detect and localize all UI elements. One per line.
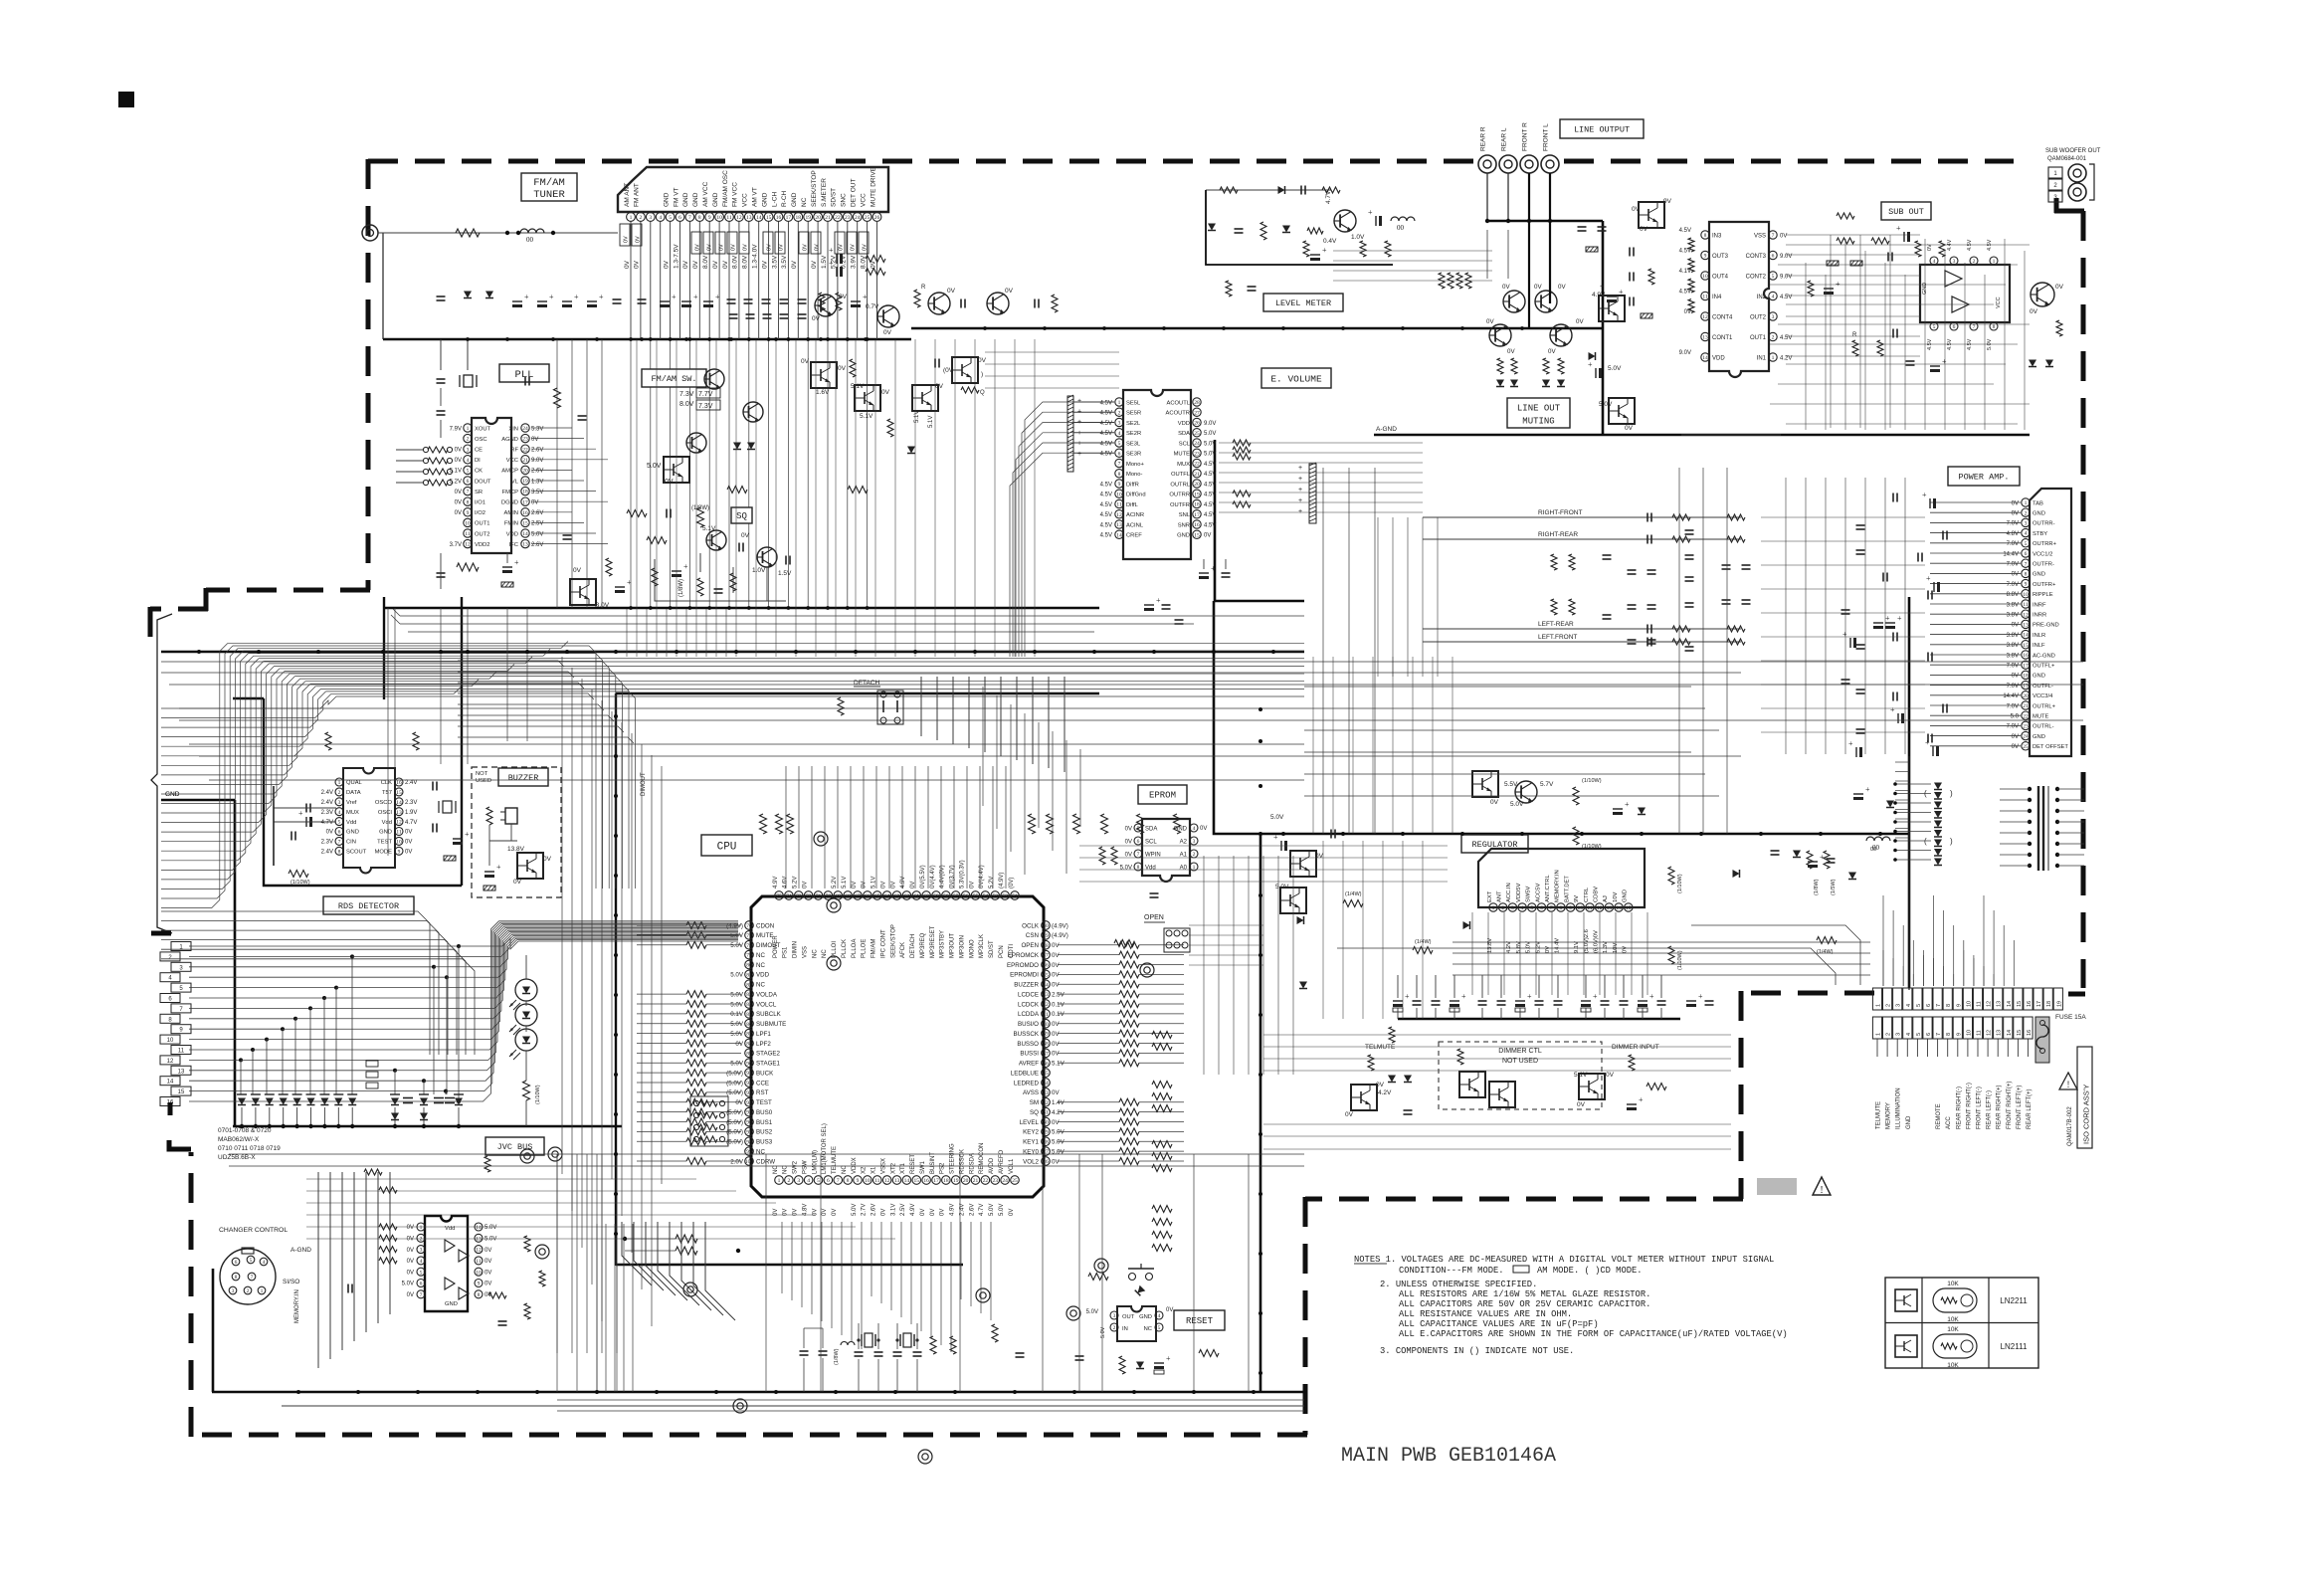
- svg-text:7.0V: 7.0V: [2007, 521, 2019, 527]
- resistor sq r3: [730, 573, 736, 591]
- wire bottom verticals: [557, 1154, 1249, 1392]
- svg-text:CONT2: CONT2: [1746, 274, 1767, 280]
- svg-text:BUZZER: BUZZER: [508, 773, 539, 783]
- svg-text:16: 16: [923, 1178, 929, 1184]
- ecap muting: [1588, 360, 1622, 378]
- svg-text:ACINL: ACINL: [1126, 522, 1144, 528]
- svg-text:!: !: [2067, 1080, 2070, 1089]
- wire left bus fan: [161, 642, 1304, 908]
- svg-text:CDRW: CDRW: [756, 1158, 775, 1165]
- svg-text:7: 7: [1137, 852, 1140, 858]
- svg-text:+: +: [1890, 705, 1895, 714]
- svg-text:CPU: CPU: [717, 841, 737, 853]
- svg-text:13: 13: [1702, 335, 1708, 341]
- svg-text:0V: 0V: [851, 244, 857, 251]
- wire bold sub gnd: [1214, 601, 1260, 834]
- svg-text:5.0V: 5.0V: [1608, 365, 1622, 372]
- svg-text:AM VT: AM VT: [752, 187, 759, 207]
- svg-text:11: 11: [874, 1178, 880, 1184]
- svg-text:ILLUMINATION: ILLUMINATION: [1896, 1087, 1902, 1129]
- wire bold jack top bus: [1487, 220, 1603, 223]
- svg-text:PS1: PS1: [783, 946, 789, 958]
- svg-text:GND: GND: [692, 192, 699, 207]
- transistor Q t3: [928, 288, 956, 314]
- svg-text:24: 24: [522, 426, 528, 432]
- svg-text:GND: GND: [1623, 889, 1629, 902]
- svg-text:4.5V: 4.5V: [1780, 335, 1792, 341]
- fuse 15A: [2035, 1014, 2086, 1063]
- resistor reset r3: [1199, 1350, 1219, 1357]
- svg-text:OUTFR-: OUTFR-: [2033, 562, 2054, 568]
- ecap sq: [672, 562, 688, 577]
- svg-text:I/O2: I/O2: [475, 510, 485, 516]
- svg-text:1.0V: 1.0V: [752, 567, 766, 574]
- svg-text:REAR RIGHT(+): REAR RIGHT(+): [1997, 1085, 2003, 1129]
- svg-text:2: 2: [420, 1236, 423, 1242]
- svg-text:REMOTE: REMOTE: [1936, 1103, 1942, 1129]
- svg-text:0V: 0V: [1490, 799, 1499, 806]
- svg-text:25: 25: [2023, 744, 2029, 750]
- svg-text:0V: 0V: [692, 260, 699, 269]
- svg-text:5.0V: 5.0V: [1275, 884, 1289, 890]
- resistor cpu left pair: [623, 1235, 740, 1255]
- svg-text:CDON: CDON: [756, 922, 774, 929]
- svg-text:19: 19: [953, 1178, 959, 1184]
- svg-text:0V: 0V: [890, 882, 896, 889]
- svg-text:7: 7: [1973, 324, 1976, 330]
- connector e.volume input bar: [1067, 395, 1081, 472]
- svg-text:LEVEL METER: LEVEL METER: [1275, 298, 1331, 308]
- wire cpu top bundle: [786, 766, 1006, 889]
- svg-text:NOTES 1. VOLTAGES ARE DC-MEA: NOTES 1. VOLTAGES ARE DC-MEASURED WITH A…: [1354, 1255, 1774, 1265]
- svg-text:+: +: [1405, 992, 1410, 1001]
- svg-text:VDD2: VDD2: [475, 542, 489, 548]
- transistor Q fm3: [686, 433, 706, 453]
- svg-text:GND: GND: [346, 830, 359, 836]
- svg-text:(4.9V): (4.9V): [1052, 922, 1068, 929]
- svg-text:00: 00: [1870, 847, 1876, 853]
- svg-text:ACC5V: ACC5V: [1535, 884, 1541, 902]
- svg-text:5.0V: 5.0V: [1100, 1326, 1106, 1338]
- resistor reg r2: [1573, 827, 1602, 850]
- svg-text:VDD: VDD: [506, 531, 518, 537]
- wire jvc extra: [557, 1154, 617, 1353]
- wire bold bottom thin: [282, 1405, 1304, 1407]
- wire reg left drops: [1323, 841, 1423, 1019]
- svg-text:+: +: [1211, 564, 1216, 573]
- capacitor mid c2: [1035, 299, 1039, 308]
- svg-text:MEMORY.IN: MEMORY.IN: [1555, 870, 1561, 902]
- resistor reset r1: [1088, 1274, 1108, 1281]
- svg-text:(1/10W): (1/10W): [290, 880, 310, 886]
- svg-text:(5.0V): (5.0V): [726, 1070, 743, 1077]
- wire bold iso gnd drop: [1908, 597, 1911, 988]
- svg-text:GND: GND: [1139, 1314, 1152, 1320]
- wire evol to cpu bundle: [921, 677, 1065, 772]
- svg-text:9V: 9V: [1574, 895, 1580, 902]
- svg-text:+: +: [1077, 440, 1081, 447]
- resistor reg r6: [1413, 939, 1433, 954]
- svg-text:8: 8: [338, 849, 341, 855]
- svg-text:76: 76: [746, 923, 752, 929]
- svg-text:OUT2: OUT2: [475, 531, 489, 537]
- svg-text:65: 65: [874, 893, 880, 899]
- svg-text:35: 35: [1043, 1071, 1049, 1077]
- svg-text:5: 5: [420, 1270, 423, 1276]
- svg-text:5.0V: 5.0V: [647, 463, 662, 470]
- svg-text:VCC: VCC: [506, 458, 518, 464]
- svg-text:22: 22: [522, 447, 528, 453]
- svg-text:46: 46: [1043, 963, 1049, 969]
- wire bold diode row bus: [233, 1125, 622, 1127]
- svg-text:AM MODE. ( )CD MODE.: AM MODE. ( )CD MODE.: [1537, 1266, 1643, 1276]
- svg-text:10: 10: [396, 840, 402, 846]
- svg-text:+: +: [683, 562, 688, 571]
- svg-text:MUTE: MUTE: [1174, 452, 1191, 458]
- diode reg z1: [1638, 808, 1646, 815]
- svg-text:19: 19: [1194, 492, 1200, 497]
- capacitor jvc c1: [348, 1284, 352, 1293]
- svg-text:+: +: [1619, 288, 1624, 296]
- crystal X PLL: [460, 375, 477, 387]
- IC EPROM: [1120, 819, 1208, 882]
- svg-text:8: 8: [698, 215, 701, 221]
- svg-text:): ): [1950, 837, 1953, 846]
- resistor diminput r: [1629, 1055, 1635, 1071]
- label EPROM: [1138, 785, 1187, 804]
- svg-text:6: 6: [235, 1260, 238, 1266]
- svg-text:OUTFR: OUTFR: [1170, 502, 1190, 508]
- wire bold bottom trunk: [212, 1391, 1306, 1394]
- ecap mid: [829, 246, 843, 277]
- svg-text:AVDD: AVDD: [989, 1157, 995, 1174]
- svg-text:0V: 0V: [484, 1270, 491, 1276]
- svg-text:RIPPLE: RIPPLE: [2033, 592, 2053, 598]
- svg-text:7: 7: [688, 215, 691, 221]
- svg-text:LN2211: LN2211: [2000, 1296, 2028, 1305]
- svg-text:0V: 0V: [881, 389, 890, 396]
- svg-text:25: 25: [1194, 431, 1200, 437]
- svg-text:(: (: [1924, 837, 1927, 846]
- switch DETACH: [877, 691, 903, 724]
- svg-text:12: 12: [884, 1178, 890, 1184]
- svg-text:2.4V: 2.4V: [321, 800, 333, 806]
- svg-text:ACC: ACC: [1946, 1116, 1952, 1129]
- text CHANGER CONTROL: [219, 1227, 288, 1234]
- svg-text:SEEK/STOP: SEEK/STOP: [890, 924, 896, 958]
- svg-text:12: 12: [1987, 1030, 1993, 1036]
- svg-text:MEMORY: MEMORY: [1886, 1102, 1892, 1129]
- svg-text:+: +: [1461, 992, 1466, 1001]
- svg-text:+: +: [574, 293, 579, 301]
- svg-text:0V(5.5V): 0V(5.5V): [920, 865, 926, 889]
- svg-text:SE3R: SE3R: [1126, 452, 1141, 458]
- svg-text:90: 90: [746, 1061, 752, 1067]
- svg-text:0V: 0V: [1625, 425, 1634, 432]
- svg-text:5.2V: 5.2V: [793, 877, 799, 889]
- resistor sq r5: [652, 568, 658, 586]
- svg-text:4: 4: [1906, 1033, 1912, 1036]
- svg-text:0V: 0V: [761, 260, 768, 269]
- connector sub woofer out: [2048, 164, 2094, 202]
- svg-text:DOUT: DOUT: [475, 479, 491, 485]
- diode reset d2: [1136, 1362, 1144, 1369]
- svg-text:SW1: SW1: [920, 1160, 926, 1174]
- svg-text:0V: 0V: [1486, 318, 1494, 325]
- svg-text:13.8V: 13.8V: [507, 846, 525, 853]
- svg-text:0V: 0V: [839, 294, 848, 300]
- svg-text:0V(4.4V): 0V(4.4V): [930, 865, 936, 889]
- svg-text:5.3V(0.3V): 5.3V(0.3V): [959, 860, 965, 889]
- svg-text:0V: 0V: [455, 490, 462, 495]
- svg-text:+: +: [672, 293, 677, 301]
- svg-text:67: 67: [855, 893, 861, 899]
- svg-text:LCDCE: LCDCE: [1018, 991, 1039, 998]
- svg-text:8: 8: [1704, 233, 1707, 239]
- antenna jack: [362, 225, 378, 241]
- capacitor PLL c2: [437, 411, 446, 415]
- svg-text:REMOCON: REMOCON: [979, 1143, 985, 1174]
- svg-text:4.5V: 4.5V: [1204, 512, 1216, 518]
- resistor mid r6: [727, 487, 747, 494]
- svg-text:OUTRR-: OUTRR-: [2033, 521, 2055, 527]
- svg-text:0V: 0V: [767, 244, 773, 251]
- capacitors power amp inputs 2: [1841, 525, 1903, 733]
- svg-text:12: 12: [167, 1059, 174, 1065]
- svg-text:14: 14: [2007, 1001, 2013, 1007]
- svg-text:(1/10W): (1/10W): [1582, 778, 1602, 784]
- svg-text:GND: GND: [2033, 674, 2045, 680]
- text 7.3V 8.0V: [679, 391, 694, 408]
- svg-text:+: +: [599, 293, 604, 301]
- svg-text:7: 7: [251, 1275, 254, 1281]
- testpoint jvc1: [520, 1147, 562, 1259]
- svg-text:0V: 0V: [1684, 309, 1691, 315]
- svg-text:48: 48: [1043, 943, 1049, 949]
- svg-text:0.1V: 0.1V: [730, 1011, 744, 1018]
- boxed 7.3V: [696, 400, 720, 410]
- svg-text:BUS2: BUS2: [756, 1129, 773, 1136]
- svg-text:OUT1: OUT1: [475, 521, 489, 527]
- wires left connector staircase: [189, 921, 738, 1103]
- svg-text:STAGE2: STAGE2: [756, 1051, 781, 1058]
- svg-text:5.0V: 5.0V: [1052, 1139, 1065, 1146]
- svg-text:2.7V: 2.7V: [862, 1204, 868, 1216]
- svg-text:0V: 0V: [1345, 1111, 1354, 1118]
- svg-text:4.2V: 4.2V: [1506, 941, 1512, 953]
- svg-text:11: 11: [476, 1259, 482, 1265]
- svg-text:MUX: MUX: [1177, 462, 1190, 468]
- svg-text:5.2V: 5.2V: [989, 877, 995, 889]
- svg-text:2.5V: 2.5V: [1052, 991, 1065, 998]
- connector iso row2 16-pin: [1872, 1017, 2033, 1057]
- label LEVEL METER: [1263, 294, 1343, 311]
- svg-text:LEDBLUE: LEDBLUE: [1011, 1070, 1039, 1077]
- svg-text:Vdd: Vdd: [382, 820, 392, 826]
- ecap reg e1: [1613, 800, 1630, 815]
- wire jack band: [1333, 251, 1492, 281]
- text 5.0V 0V: [647, 463, 674, 486]
- svg-text:3: 3: [1511, 905, 1514, 911]
- diode array right: [1924, 783, 1953, 866]
- svg-text:GND: GND: [445, 1301, 458, 1307]
- IC regulator: [1478, 849, 1645, 953]
- svg-text:): ): [1950, 789, 1953, 798]
- svg-text:0V: 0V: [1534, 284, 1542, 291]
- svg-text:0V: 0V: [743, 244, 749, 251]
- resistor PLL r2: [457, 563, 479, 571]
- svg-text:A0: A0: [1180, 865, 1188, 871]
- wire bold rds box: [233, 597, 462, 886]
- digital transistor buzzer: [507, 846, 552, 886]
- svg-text:5: 5: [1933, 324, 1936, 330]
- svg-text:DETACH: DETACH: [910, 934, 916, 958]
- svg-text:13: 13: [476, 1236, 482, 1242]
- svg-text:12: 12: [1987, 1001, 1993, 1007]
- svg-text:15: 15: [1194, 532, 1200, 538]
- svg-text:18: 18: [1194, 502, 1200, 508]
- svg-text:5.0V: 5.0V: [484, 1237, 496, 1243]
- svg-text:24: 24: [1002, 1178, 1008, 1184]
- svg-text:10: 10: [716, 215, 722, 221]
- svg-text:2: 2: [1886, 1033, 1892, 1036]
- svg-text:0V: 0V: [2030, 308, 2038, 315]
- svg-text:GND: GND: [761, 192, 768, 207]
- svg-text:14: 14: [2023, 633, 2029, 639]
- svg-text:(1/8W): (1/8W): [691, 505, 709, 511]
- wire evol top band: [985, 352, 1119, 388]
- svg-text:4.5V: 4.5V: [1100, 400, 1112, 406]
- iso harness labels: [1876, 1082, 2033, 1129]
- svg-text:2.0V: 2.0V: [730, 1158, 744, 1165]
- svg-text:40: 40: [1043, 1022, 1049, 1028]
- svg-text:0V: 0V: [779, 244, 785, 251]
- crystal X1: [855, 1323, 883, 1392]
- svg-text:0.1V: 0.1V: [1052, 1011, 1065, 1018]
- svg-text:+: +: [1639, 1095, 1644, 1104]
- capacitor reg c2: [1331, 830, 1335, 839]
- svg-text:21: 21: [522, 458, 528, 464]
- svg-text:50: 50: [1043, 923, 1049, 929]
- svg-text:(1/8W): (1/8W): [678, 579, 684, 597]
- svg-text:1: 1: [1118, 400, 1121, 406]
- svg-text:0V: 0V: [811, 260, 818, 269]
- svg-text:+: +: [514, 558, 519, 567]
- page corner mark: [118, 92, 134, 107]
- svg-text:8: 8: [2025, 572, 2028, 578]
- wire bold tuner section bottom: [383, 338, 911, 341]
- svg-text:GND: GND: [2033, 511, 2045, 517]
- svg-text:0V: 0V: [2012, 572, 2019, 578]
- diode fm2: [747, 443, 755, 450]
- svg-text:0V: 0V: [2012, 734, 2019, 740]
- resistor dimctl r: [1457, 1049, 1463, 1065]
- wire upper thin rows: [391, 609, 1304, 632]
- diode right d4: [1733, 870, 1740, 878]
- svg-text:MP3CLK: MP3CLK: [979, 934, 985, 958]
- wire bold evol gnd drop: [1214, 440, 1217, 601]
- wire bold jack ground down: [1602, 221, 1605, 435]
- svg-text:9: 9: [1956, 1033, 1962, 1036]
- svg-text:(1/8W): (1/8W): [1814, 879, 1820, 895]
- svg-text:10: 10: [465, 521, 471, 527]
- svg-text:IPC CONT: IPC CONT: [880, 929, 886, 958]
- svg-text:+: +: [1925, 738, 1930, 747]
- ecap right e1: [1853, 785, 1894, 808]
- svg-text:PLL: PLL: [515, 369, 534, 381]
- wires PLL bottom: [441, 553, 507, 589]
- svg-text:ACOUTL: ACOUTL: [1166, 400, 1190, 406]
- svg-text:39: 39: [1043, 1032, 1049, 1038]
- transistor sub q1: [2030, 283, 2064, 315]
- svg-text:22: 22: [835, 215, 841, 221]
- svg-text:0V: 0V: [1052, 1051, 1060, 1058]
- svg-text:0V: 0V: [803, 244, 809, 251]
- jumper resistors left: [366, 1061, 378, 1088]
- svg-text:0V: 0V: [513, 879, 522, 886]
- svg-text:6: 6: [827, 1178, 830, 1184]
- svg-text:9: 9: [398, 849, 401, 855]
- svg-text:11: 11: [1702, 295, 1708, 300]
- svg-text:10: 10: [1702, 274, 1708, 280]
- svg-text:1: 1: [467, 426, 470, 432]
- gnd PLL: [501, 582, 513, 587]
- svg-text:17: 17: [2023, 663, 2029, 669]
- wire iso feed drops: [1883, 895, 2014, 986]
- svg-text:6: 6: [1926, 1004, 1932, 1007]
- svg-text:MUTE: MUTE: [756, 932, 774, 939]
- svg-text:1.3V: 1.3V: [531, 479, 543, 485]
- svg-text:MP3RESET: MP3RESET: [930, 925, 936, 958]
- svg-text:0V: 0V: [1052, 1119, 1060, 1126]
- svg-text:GND: GND: [682, 192, 689, 207]
- svg-text:+: +: [829, 246, 834, 255]
- svg-text:3.1V: 3.1V: [890, 1204, 896, 1216]
- svg-text:1: 1: [2025, 500, 2028, 506]
- svg-text:CONT4: CONT4: [1712, 314, 1733, 320]
- wires diode array feeds: [1893, 782, 1931, 862]
- svg-text:5.2V: 5.2V: [832, 877, 838, 889]
- svg-text:0V: 0V: [969, 882, 975, 889]
- svg-text:TEST: TEST: [377, 840, 392, 846]
- svg-text:POWER AMP.: POWER AMP.: [1958, 473, 2009, 483]
- svg-text:14: 14: [904, 1178, 910, 1184]
- svg-text:ACC.IN: ACC.IN: [1506, 883, 1512, 902]
- svg-text:OSCI: OSCI: [378, 810, 393, 816]
- svg-text:0V: 0V: [947, 288, 956, 295]
- svg-text:4: 4: [1906, 1004, 1912, 1007]
- svg-text:0V: 0V: [1376, 1082, 1385, 1088]
- svg-text:52: 52: [1002, 893, 1008, 899]
- wire bold a-gnd mid trunk: [911, 327, 1603, 330]
- svg-text:+: +: [1625, 800, 1630, 809]
- svg-text:12: 12: [1116, 512, 1122, 518]
- svg-text:DET OFFSET: DET OFFSET: [2033, 744, 2068, 750]
- svg-text:+: +: [524, 293, 529, 301]
- board outline dashed left upper vertical: [366, 159, 371, 590]
- svg-text:0V: 0V: [1502, 284, 1510, 291]
- svg-text:6: 6: [420, 1282, 423, 1287]
- digital transistor fm: [664, 457, 689, 483]
- svg-text:4.5V: 4.5V: [1100, 502, 1112, 508]
- svg-text:0V: 0V: [2012, 623, 2019, 629]
- svg-text:(5.0V): (5.0V): [726, 1080, 743, 1086]
- svg-text:77: 77: [746, 933, 752, 939]
- svg-text:10K: 10K: [1947, 1326, 1959, 1333]
- components tuner decoupling row: [437, 292, 869, 311]
- svg-text:LCDDA: LCDDA: [1018, 1011, 1040, 1018]
- resistor detach r: [838, 697, 844, 715]
